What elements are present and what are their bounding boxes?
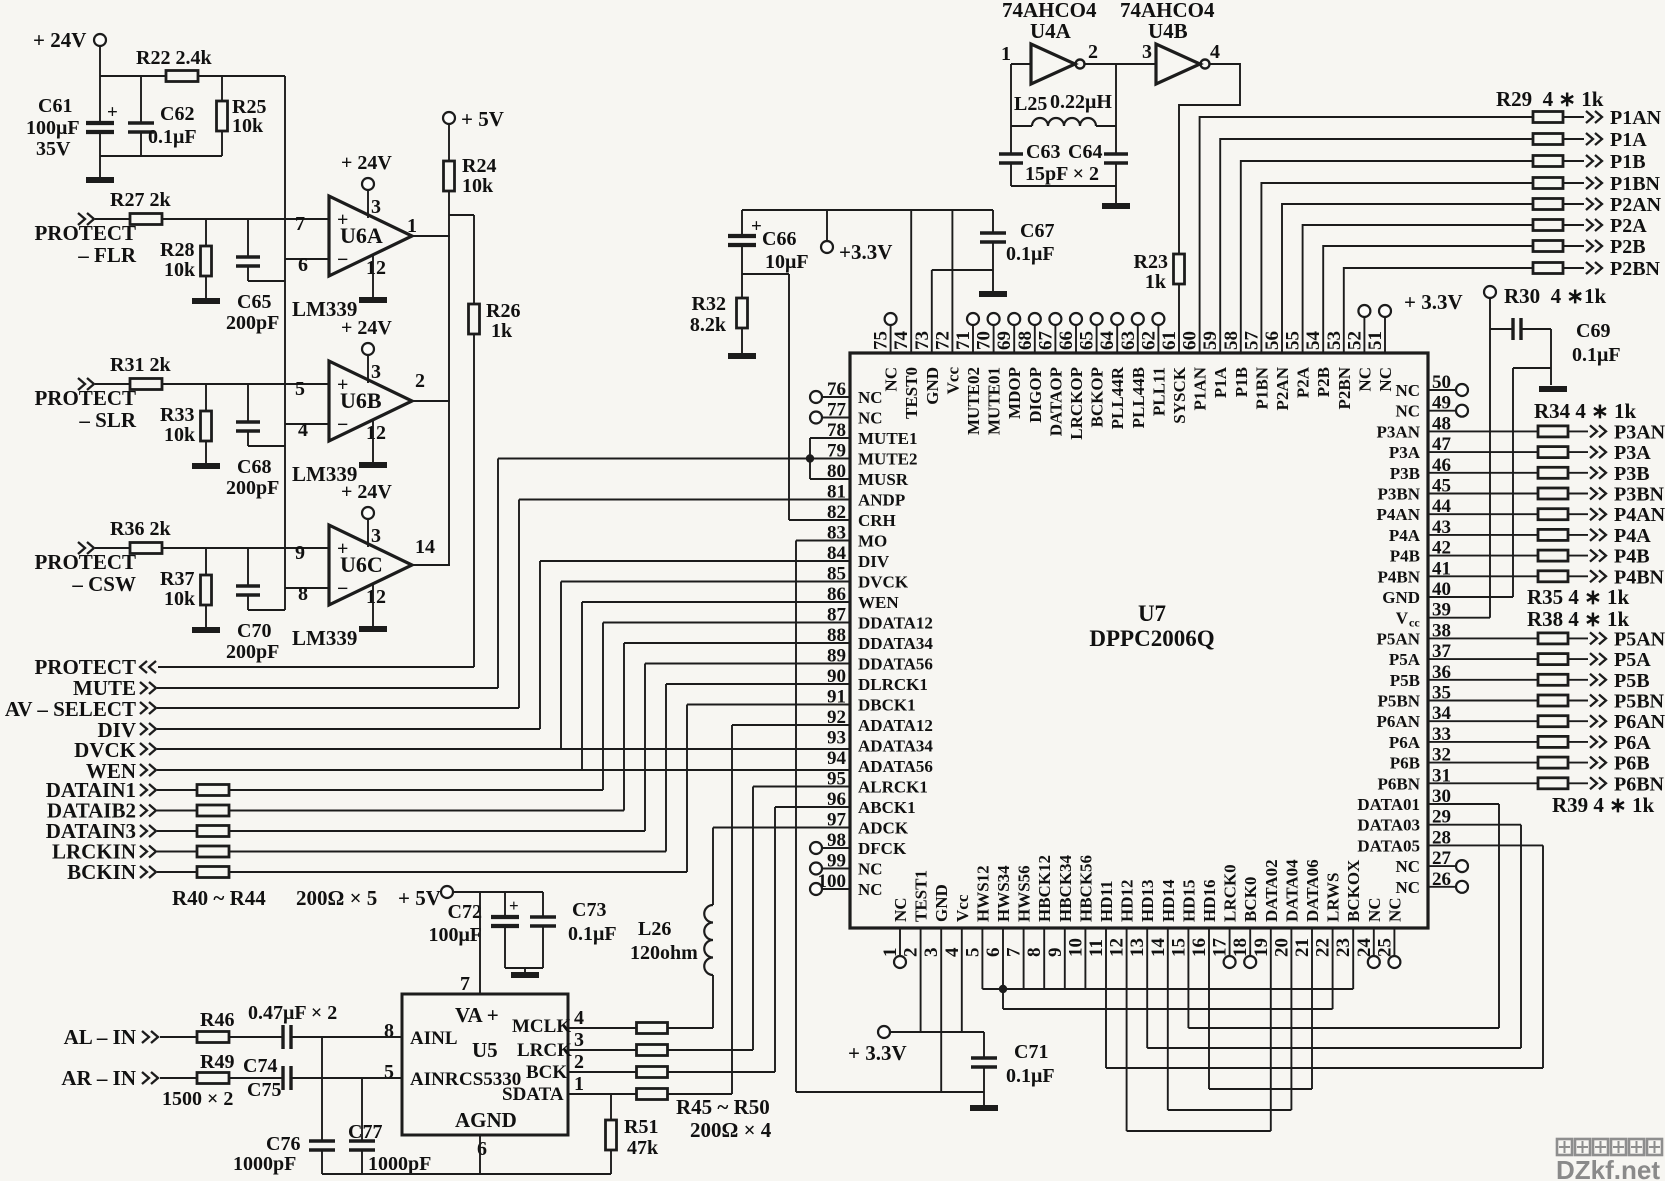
svg-text:10k: 10k [164, 588, 196, 610]
resistor array element P5BN [1538, 695, 1568, 706]
wire pin 88 DDATA34 [624, 642, 850, 644]
svg-text:55: 55 [1283, 331, 1304, 350]
svg-text:22: 22 [1313, 938, 1334, 957]
svg-text:56: 56 [1262, 331, 1283, 350]
wire pin 95 ALRCK1 [753, 786, 850, 788]
svg-text:R37: R37 [160, 568, 194, 590]
svg-text:WEN: WEN [858, 593, 899, 612]
svg-text:ADCK: ADCK [858, 819, 909, 838]
wire pin 81 ANDP [519, 499, 850, 501]
svg-text:−: − [337, 249, 348, 271]
svg-text:V: V [1396, 609, 1409, 628]
svg-text:PROTECT: PROTECT [34, 550, 136, 574]
svg-text:+ 5V: + 5V [398, 886, 441, 910]
svg-text:P1A: P1A [1610, 129, 1647, 151]
wire HD16 to DATA06 [1208, 928, 1210, 1089]
U7 right NC stubs [1428, 389, 1456, 391]
series resistor on LRCKIN [157, 851, 197, 853]
wire pin 2 TEST1 [920, 928, 922, 1032]
resistors R45~R50 200ohm x4 [568, 1027, 637, 1029]
svg-text:BCKOX: BCKOX [1344, 859, 1363, 922]
resistor array element P3B [1538, 467, 1568, 478]
wire R22 to bus [198, 75, 285, 77]
bracket pins 78-80 MUTE1/MUTE2/MUSR [810, 437, 850, 439]
svg-text:DBCK1: DBCK1 [858, 696, 916, 715]
svg-text:69: 69 [994, 331, 1015, 350]
riser to pin 91 [686, 705, 688, 873]
svg-text:57: 57 [1241, 331, 1262, 351]
svg-text:10k: 10k [164, 259, 196, 281]
resistor array element P5A [1538, 654, 1568, 665]
resistor array element P1BN [1533, 178, 1563, 189]
resistor array element P4BN [1538, 571, 1568, 582]
svg-text:P6B: P6B [1390, 754, 1420, 773]
svg-text:1500 × 2: 1500 × 2 [162, 1088, 233, 1110]
svg-text:P2BN: P2BN [1610, 258, 1661, 280]
svg-text:U4A: U4A [1030, 19, 1072, 43]
svg-text:7: 7 [295, 213, 305, 235]
svg-text:13: 13 [1127, 938, 1148, 957]
svg-text:TEST1: TEST1 [912, 870, 931, 922]
svg-text:1: 1 [574, 1073, 584, 1095]
wire pin 82 CRH [789, 519, 850, 521]
svg-text:MCLK: MCLK [512, 1016, 571, 1037]
svg-text:L25: L25 [1014, 93, 1047, 115]
svg-text:1: 1 [407, 215, 417, 237]
wire MUTE riser to pins 79/80 [497, 459, 499, 689]
wire pin 35 to P5BN [1428, 700, 1538, 702]
svg-text:– FLR: – FLR [77, 243, 137, 267]
svg-text:P5A: P5A [1614, 649, 1651, 671]
resistor array element P5AN [1538, 633, 1568, 644]
svg-text:6: 6 [298, 254, 308, 276]
svg-text:P2A: P2A [1294, 366, 1313, 398]
svg-text:C64: C64 [1068, 141, 1102, 163]
svg-text:Vcc: Vcc [953, 894, 972, 922]
output arrow P5B [1568, 679, 1588, 681]
op-amp U6A LM339 [329, 196, 412, 276]
svg-text:MO: MO [858, 532, 887, 551]
svg-text:C69: C69 [1576, 320, 1610, 342]
svg-text:6: 6 [983, 948, 1004, 958]
wire pin 58 to P1B [1241, 161, 1533, 353]
wire MCLK to L26 [667, 1027, 713, 1029]
svg-text:94: 94 [827, 748, 847, 769]
svg-text:59: 59 [1200, 331, 1221, 350]
svg-text:P6B: P6B [1614, 753, 1650, 775]
svg-text:3: 3 [574, 1029, 584, 1051]
output arrow P3A [1568, 451, 1588, 453]
svg-text:P5B: P5B [1614, 670, 1650, 692]
svg-text:−: − [337, 414, 348, 436]
wire node to R22 [100, 75, 166, 77]
svg-text:2: 2 [901, 948, 922, 958]
svg-text:HBCK34: HBCK34 [1056, 854, 1075, 922]
svg-text:200Ω × 4: 200Ω × 4 [690, 1118, 772, 1142]
svg-text:47k: 47k [627, 1137, 659, 1159]
svg-text:SDATA: SDATA [502, 1084, 564, 1105]
wire pin 85 DVCK [561, 581, 850, 583]
svg-text:0.1μF: 0.1μF [148, 126, 197, 148]
svg-text:0.22μH: 0.22μH [1050, 91, 1112, 113]
svg-text:NC: NC [1395, 857, 1420, 876]
svg-text:PLL11: PLL11 [1149, 367, 1168, 416]
wire pin 43 to P4A [1428, 534, 1538, 536]
svg-text:– CSW: – CSW [71, 572, 136, 596]
svg-text:R38 4 ∗ 1k: R38 4 ∗ 1k [1527, 607, 1630, 631]
IC U7 DPPC2006Q [850, 353, 1428, 928]
svg-text:+ 24V: + 24V [341, 481, 392, 503]
svg-text:P4AN: P4AN [1614, 504, 1665, 526]
wire pin 59 to P1A [1220, 139, 1533, 353]
svg-text:P3B: P3B [1614, 463, 1650, 485]
wire pin 84 DIV [540, 560, 850, 562]
svg-text:HWS12: HWS12 [973, 865, 992, 922]
svg-text:P3BN: P3BN [1378, 485, 1421, 504]
svg-text:PLL44R: PLL44R [1108, 366, 1127, 429]
svg-text:P5AN: P5AN [1614, 628, 1665, 650]
wire pin 87 DDATA12 [603, 622, 850, 624]
svg-text:200pF: 200pF [226, 312, 279, 334]
svg-text:P4A: P4A [1614, 525, 1651, 547]
wire pin 31 to P6BN [1428, 782, 1538, 784]
svg-text:DDATA34: DDATA34 [858, 634, 933, 653]
svg-text:P6AN: P6AN [1614, 711, 1665, 733]
svg-text:TEST0: TEST0 [902, 367, 921, 419]
resistor array element P2A [1533, 220, 1563, 231]
svg-text:HD12: HD12 [1118, 880, 1137, 923]
wire pin 74 TEST0 to rail [910, 210, 912, 353]
capacitor C67 0.1uF [992, 210, 994, 233]
wire pin 41 to P4BN [1428, 575, 1538, 577]
svg-text:14: 14 [415, 536, 435, 558]
resistor R27 2k [95, 218, 130, 220]
ground [979, 291, 1007, 297]
svg-text:−: − [337, 578, 348, 600]
ground pin 12 [372, 254, 374, 297]
svg-text:+ 24V: + 24V [341, 152, 392, 174]
resistor R23 1k [1174, 254, 1185, 284]
resistor array element P5B [1538, 674, 1568, 685]
capacitor C72 100uF [504, 892, 506, 917]
svg-text:R46: R46 [200, 1009, 234, 1031]
wire pin 3 GND [940, 928, 942, 1092]
wire pin 28 DATA05 [1428, 844, 1543, 846]
svg-text:1k: 1k [1145, 271, 1167, 293]
ground [1539, 386, 1567, 392]
svg-text:BCK: BCK [526, 1062, 567, 1083]
wire BCKIN to riser [229, 871, 687, 873]
svg-text:+ 3.3V: + 3.3V [848, 1041, 907, 1065]
capacitor C73 0.1uF [542, 892, 544, 917]
svg-text:P2B: P2B [1610, 236, 1646, 258]
resistor array element P1AN [1533, 112, 1563, 123]
resistor R28 10k [205, 219, 207, 246]
wire to + input [162, 547, 328, 549]
wire DATAIB2 to riser [229, 810, 624, 812]
wire branch to R26 [449, 214, 474, 216]
svg-text:DIGOP: DIGOP [1026, 367, 1045, 423]
svg-text:21: 21 [1292, 938, 1313, 957]
wire pin 46 to P3B [1428, 472, 1538, 474]
svg-text:75: 75 [871, 331, 892, 350]
wire pin 83 MO [796, 540, 850, 542]
wire HD11 to DATA05 riser [1105, 928, 1107, 1068]
svg-text:R31 2k: R31 2k [110, 354, 171, 376]
ground [970, 1105, 998, 1111]
svg-text:CRH: CRH [858, 511, 896, 530]
output arrow P5A [1568, 658, 1588, 660]
svg-text:67: 67 [1035, 331, 1056, 351]
svg-text:DATA04: DATA04 [1282, 859, 1301, 922]
wire DIV riser to pin 84 [539, 561, 541, 729]
svg-text:L26: L26 [638, 918, 671, 940]
wire - input from bus [285, 587, 329, 589]
svg-text:12: 12 [1107, 938, 1128, 957]
resistor array element P4AN [1538, 509, 1568, 520]
svg-text:72: 72 [932, 331, 953, 350]
power terminal +5V analog [441, 886, 453, 898]
svg-text:DDATA56: DDATA56 [858, 655, 933, 674]
svg-text:9: 9 [295, 542, 305, 564]
svg-text:NC: NC [891, 897, 910, 922]
wire Vcc pin 39 to +3.3V [1428, 617, 1490, 619]
wire pin 37 to P5A [1428, 658, 1538, 660]
wire to + input [162, 218, 328, 220]
svg-text:63: 63 [1118, 331, 1139, 350]
power terminal +3.3V [826, 210, 828, 241]
resistor R31 2k [95, 383, 130, 385]
svg-text:15pF × 2: 15pF × 2 [1025, 163, 1099, 185]
U7 top pin stubs [890, 325, 892, 353]
capacitor C68 200pF [247, 384, 249, 422]
svg-text:AL – IN: AL – IN [64, 1025, 136, 1049]
resistor array element P3A [1538, 447, 1568, 458]
wire pin 55 to P2A [1303, 225, 1533, 353]
svg-text:NC: NC [882, 367, 901, 392]
wire pin 36 to P5B [1428, 679, 1538, 681]
svg-text:7: 7 [460, 973, 470, 995]
wire pin 34 to P6AN [1428, 720, 1538, 722]
svg-text:12: 12 [366, 257, 386, 279]
wire WEN riser to pin 86 [581, 602, 583, 770]
svg-text:P5AN: P5AN [1377, 629, 1421, 648]
svg-text:P1B: P1B [1610, 151, 1646, 173]
ground pin 12 [372, 419, 374, 462]
svg-text:P2A: P2A [1610, 215, 1647, 237]
svg-text:12: 12 [366, 586, 386, 608]
svg-text:10: 10 [1065, 938, 1086, 957]
svg-text:AINR: AINR [410, 1069, 459, 1090]
svg-text:HD14: HD14 [1159, 879, 1178, 922]
wire LRCK riser to pin 95 [667, 1049, 753, 1051]
svg-text:U4B: U4B [1148, 19, 1188, 43]
svg-text:53: 53 [1324, 331, 1345, 350]
resistor R49 [160, 1077, 197, 1079]
wire - input from bus [285, 423, 329, 425]
svg-text:100μF: 100μF [26, 117, 80, 139]
svg-text:4: 4 [942, 947, 963, 957]
wire GND pin 40 to ground [1428, 596, 1513, 598]
svg-text:74: 74 [891, 331, 912, 351]
wire pin 90 DLRCK1 [666, 683, 850, 685]
svg-text:NC: NC [1365, 897, 1384, 922]
output arrow P4AN [1568, 513, 1588, 515]
svg-text:200pF: 200pF [226, 477, 279, 499]
svg-text:8.2k: 8.2k [690, 314, 727, 336]
svg-text:DIV: DIV [858, 552, 890, 571]
svg-text:+ 24V: + 24V [341, 317, 392, 339]
svg-text:BCK0: BCK0 [1241, 877, 1260, 922]
svg-text:P3A: P3A [1614, 442, 1651, 464]
svg-text:62: 62 [1138, 331, 1159, 350]
svg-text:NC: NC [858, 860, 883, 879]
svg-text:VA +: VA + [455, 1003, 499, 1027]
svg-text:4: 4 [298, 419, 308, 441]
svg-text:LRCK: LRCK [517, 1040, 572, 1061]
output wire U6A [412, 235, 450, 237]
wire pin 57 to P1BN [1261, 183, 1533, 353]
svg-text:C75: C75 [247, 1079, 281, 1101]
output arrow P1A [1563, 138, 1584, 140]
wire +3.3V rail bottom [890, 1031, 984, 1033]
svg-text:HBCK56: HBCK56 [1076, 855, 1095, 922]
svg-text:C77: C77 [348, 1121, 382, 1143]
svg-text:P6A: P6A [1389, 733, 1421, 752]
svg-text:P4AN: P4AN [1377, 505, 1421, 524]
svg-text:C61: C61 [38, 95, 72, 117]
svg-text:HD16: HD16 [1200, 880, 1219, 923]
output arrow P6AN [1568, 720, 1588, 722]
ground [192, 463, 220, 469]
svg-text:GND: GND [1382, 588, 1420, 607]
capacitor C71 0.1uF [983, 1032, 985, 1058]
resistor array element P3BN [1538, 488, 1568, 499]
svg-text:P6BN: P6BN [1378, 774, 1421, 793]
svg-text:+: + [751, 216, 762, 237]
svg-text:P1BN: P1BN [1252, 366, 1271, 409]
capacitor C66 10uF [741, 210, 743, 236]
watermark [1557, 1139, 1572, 1155]
svg-text:23: 23 [1333, 938, 1354, 957]
output arrow P1AN [1563, 116, 1584, 118]
svg-text:R34 4 ∗ 1k: R34 4 ∗ 1k [1534, 399, 1637, 423]
svg-text:Vcc: Vcc [943, 367, 962, 395]
svg-text:MUTE1: MUTE1 [858, 429, 918, 448]
vertical bus from R22 [284, 76, 286, 610]
svg-text:P4B: P4B [1614, 546, 1650, 568]
svg-text:ABCK1: ABCK1 [858, 798, 916, 817]
resistor array element P4A [1538, 529, 1568, 540]
svg-text:P3AN: P3AN [1377, 422, 1421, 441]
resistor R36 2k [95, 547, 130, 549]
svg-text:ANDP: ANDP [858, 491, 905, 510]
svg-text:9: 9 [1045, 948, 1066, 958]
svg-text:8: 8 [298, 583, 308, 605]
svg-text:25: 25 [1374, 938, 1395, 957]
svg-text:R45 ~ R50: R45 ~ R50 [676, 1095, 770, 1119]
svg-text:54: 54 [1303, 331, 1324, 351]
wire pin 97 ADCK [713, 827, 850, 829]
svg-text:P4B: P4B [1390, 547, 1420, 566]
wire U4A output [1085, 63, 1156, 65]
svg-text:1000pF: 1000pF [368, 1153, 431, 1175]
svg-text:R29 4 ∗ 1k: R29 4 ∗ 1k [1496, 87, 1604, 111]
svg-text:200pF: 200pF [226, 641, 279, 663]
wire DVCK riser to pin 85 [560, 582, 562, 750]
resistor R24 10k [448, 124, 450, 161]
svg-text:P2AN: P2AN [1610, 194, 1662, 216]
svg-text:P1AN: P1AN [1610, 107, 1662, 129]
wire HD15 to DATA01 riser [1187, 928, 1189, 1028]
series resistor on DATAIB2 [157, 810, 197, 812]
svg-text:2: 2 [1088, 41, 1098, 63]
svg-text:DATA01: DATA01 [1357, 795, 1420, 814]
svg-text:NC: NC [1395, 402, 1420, 421]
wire pin 54 to P2B [1323, 246, 1533, 353]
svg-text:U5: U5 [472, 1038, 498, 1062]
svg-text:12: 12 [366, 422, 386, 444]
IC U5 CS5330 [402, 994, 568, 1135]
svg-text:C76: C76 [266, 1133, 300, 1155]
svg-text:LRWS: LRWS [1324, 873, 1343, 922]
resistor array element P1B [1533, 156, 1563, 167]
series resistor on DATAIN3 [157, 830, 197, 832]
wire pin 30 DATA01 [1428, 803, 1499, 805]
output arrow P6A [1568, 741, 1588, 743]
svg-text:HBCK12: HBCK12 [1035, 855, 1054, 922]
svg-text:2: 2 [574, 1051, 584, 1073]
svg-text:61: 61 [1159, 331, 1180, 350]
svg-text:3: 3 [1142, 41, 1152, 63]
output arrow P3AN [1568, 430, 1588, 432]
resistor array element P2B [1533, 241, 1563, 252]
output arrow P6BN [1568, 782, 1588, 784]
svg-text:R26: R26 [486, 300, 520, 322]
svg-text:R23: R23 [1134, 251, 1168, 273]
svg-text:GND: GND [923, 367, 942, 405]
wire +24V to node [99, 46, 101, 123]
svg-text:35V: 35V [36, 138, 71, 160]
svg-text:P1AN: P1AN [1191, 366, 1210, 410]
svg-text:U6A: U6A [340, 223, 383, 248]
resistor array element P2BN [1533, 263, 1563, 274]
svg-text:10k: 10k [232, 115, 264, 137]
wire pin 89 DDATA56 [645, 663, 850, 665]
svg-text:DLRCK1: DLRCK1 [858, 675, 928, 694]
resistor R46 [160, 1036, 197, 1038]
wire C66 to pin 82 CRH [742, 273, 789, 275]
svg-text:C74: C74 [243, 1055, 277, 1077]
svg-text:P3AN: P3AN [1614, 421, 1665, 443]
wire pin 91 DBCK1 [687, 704, 850, 706]
svg-text:51: 51 [1365, 331, 1386, 350]
svg-text:+ 5V: + 5V [461, 107, 504, 131]
ground pin 12 [372, 583, 374, 626]
wire pin 73 GND riser [931, 270, 933, 353]
riser to pin 88 [623, 643, 625, 811]
svg-text:8: 8 [384, 1020, 394, 1042]
bus rail A HWS/HBCK [981, 928, 983, 989]
svg-text:70: 70 [974, 331, 995, 350]
riser to pin 90 [665, 684, 667, 852]
svg-text:NC: NC [1385, 897, 1404, 922]
wire GND rail to C71 [796, 1091, 984, 1093]
svg-text:C70: C70 [237, 620, 271, 642]
svg-text:+ 3.3V: + 3.3V [1404, 290, 1463, 314]
resistor array element P6A [1538, 736, 1568, 747]
wire U4B output to R23 [1179, 64, 1240, 255]
